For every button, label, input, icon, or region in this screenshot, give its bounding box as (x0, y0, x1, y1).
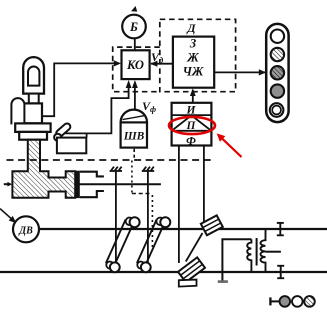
mid tap (266, 251, 281, 253)
upper brush shoe (201, 215, 223, 235)
lamp 5 double ring (270, 103, 284, 117)
red ellipse highlight (169, 117, 215, 134)
stub roller box to wire (86, 133, 88, 137)
wire ShV to KO bottom right (134, 84, 136, 110)
node B circle (122, 15, 146, 39)
svg-text:Д: Д (186, 21, 196, 35)
svg-text:И: И (186, 104, 197, 116)
svg-text:КО: КО (126, 58, 144, 72)
lever 2 arms (145, 223, 165, 267)
wire roller to KO bottom left (66, 84, 129, 133)
bottom rail (0, 271, 327, 273)
sensor neck (29, 94, 39, 104)
ShV needle (123, 115, 146, 119)
hanger wire 2 (147, 171, 149, 263)
hatched stem and hydraulic block (12, 140, 75, 198)
lever 1 arms (114, 223, 134, 267)
traffic light body (266, 24, 288, 122)
lamp 1 white (271, 30, 284, 43)
svg-text:ЧЖ: ЧЖ (183, 65, 204, 79)
wire sensor body to KO input (42, 63, 115, 116)
transformer primary loop wire (222, 239, 251, 281)
motor DV circle (13, 216, 39, 242)
flange lower (19, 132, 47, 140)
legend circle gray (280, 296, 291, 307)
ShV dome (121, 110, 147, 123)
lamp 3 hatched gray (271, 66, 284, 79)
svg-text:ДВ: ДВ (18, 225, 33, 236)
block Z/Zh/ChZh (173, 37, 214, 88)
svg-text:Ф: Ф (186, 135, 196, 147)
svg-text:З: З (189, 37, 197, 51)
cylinder top wall (80, 172, 104, 177)
ground bar (218, 280, 228, 283)
block KO (122, 50, 150, 79)
long dashed datum line (7, 159, 213, 161)
legend circle white (292, 296, 303, 307)
insulated joint bottom rail (277, 266, 284, 278)
hanger wire 1 (115, 171, 117, 263)
svg-text:Ж: Ж (186, 51, 199, 65)
lower brush shoe (178, 257, 205, 282)
lamp head of optical sensor (23, 57, 44, 93)
lower brush base plate (179, 280, 197, 287)
svg-text:П: П (186, 120, 197, 132)
I/P/F right leg (203, 146, 205, 223)
arrow I to D (192, 90, 194, 103)
I/P/F left leg (178, 146, 180, 264)
piston rod line (79, 183, 161, 185)
roller pivot circle (54, 134, 61, 141)
svg-text:Б: Б (129, 20, 138, 34)
wire B to KO (134, 38, 136, 50)
triangle in P row (172, 115, 212, 130)
lever 1 rollers (106, 262, 113, 269)
legend tie bar (269, 297, 271, 305)
transformer left coil (247, 239, 251, 272)
transformer main winding (261, 229, 266, 272)
svg-text:ШВ: ШВ (123, 131, 145, 143)
legend circle hatched (304, 296, 315, 307)
ShV box (121, 122, 147, 147)
block I/P/F (172, 103, 212, 146)
arrow into DV (0, 209, 13, 221)
dashed box around KO (113, 47, 160, 92)
arrow D to traffic light (214, 71, 265, 73)
tick above B (131, 6, 137, 12)
brush connector (186, 233, 203, 262)
lever 2 rollers (137, 262, 144, 269)
arrow D to KO (151, 63, 173, 65)
top rail (39, 228, 327, 230)
lamp 2 hatched (271, 48, 284, 61)
red arrow (219, 136, 242, 157)
dotted linkage from ShV (131, 161, 133, 194)
transformer core (256, 238, 258, 266)
lamp head inner window (28, 66, 39, 85)
frame tick 2 (142, 167, 154, 171)
dashed box D (160, 19, 236, 91)
lamp 4 gray (271, 84, 284, 97)
roller capsule on sensor (55, 122, 72, 138)
side cylinder of sensor (11, 98, 24, 124)
insulated joint top rail (277, 223, 284, 235)
frame tick 1 (110, 167, 122, 171)
arrow mark at block left (4, 183, 8, 185)
piston bar (75, 171, 80, 198)
dashed stub below ShV (133, 149, 135, 160)
sensor body (24, 103, 42, 123)
flange upper (15, 123, 50, 131)
roller box (57, 138, 86, 154)
cylinder bottom wall (80, 191, 104, 197)
